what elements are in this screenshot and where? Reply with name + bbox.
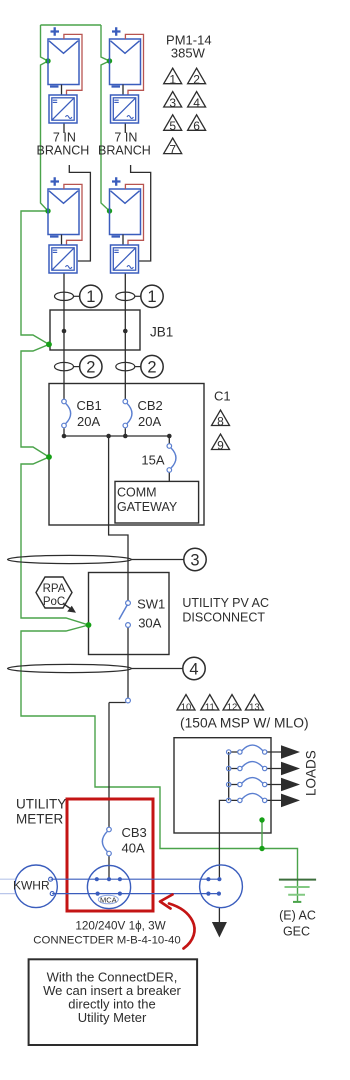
svg-text:BRANCH: BRANCH — [37, 144, 90, 158]
svg-text:4: 4 — [193, 96, 200, 110]
svg-text:JB1: JB1 — [150, 325, 173, 340]
svg-text:PoC: PoC — [43, 596, 65, 608]
svg-text:COMM: COMM — [117, 486, 157, 500]
svg-text:8: 8 — [217, 414, 224, 428]
svg-text:120/240V 1ϕ, 3W: 120/240V 1ϕ, 3W — [75, 920, 165, 933]
svg-text:7 IN: 7 IN — [53, 131, 76, 145]
svg-text:Utility Meter: Utility Meter — [78, 1010, 147, 1025]
svg-text:1: 1 — [86, 288, 95, 306]
svg-text:2: 2 — [193, 73, 200, 87]
svg-text:C1: C1 — [214, 389, 231, 404]
svg-text:5: 5 — [169, 119, 176, 133]
svg-text:11: 11 — [205, 702, 215, 713]
svg-text:1: 1 — [147, 288, 156, 306]
svg-text:2: 2 — [86, 359, 95, 377]
svg-text:KWHR: KWHR — [13, 879, 50, 893]
svg-text:UTILITY: UTILITY — [16, 797, 66, 812]
svg-text:(E) AC: (E) AC — [279, 909, 316, 923]
svg-text:CB2: CB2 — [138, 398, 163, 413]
svg-text:METER: METER — [16, 812, 64, 827]
svg-text:30A: 30A — [138, 616, 161, 631]
svg-text:1: 1 — [169, 73, 176, 87]
svg-text:(150A MSP W/ MLO): (150A MSP W/ MLO) — [180, 716, 309, 731]
svg-text:7 IN: 7 IN — [114, 131, 137, 145]
svg-text:385W: 385W — [171, 46, 206, 61]
svg-text:20A: 20A — [77, 414, 100, 429]
svg-text:3: 3 — [169, 96, 176, 110]
svg-text:DISCONNECT: DISCONNECT — [182, 611, 265, 625]
svg-text:CB3: CB3 — [122, 825, 147, 840]
svg-text:13: 13 — [249, 702, 260, 713]
svg-text:CB1: CB1 — [77, 398, 102, 413]
svg-text:SW1: SW1 — [137, 597, 165, 612]
svg-text:LOADS: LOADS — [304, 750, 319, 796]
svg-text:9: 9 — [217, 438, 224, 452]
svg-text:RPA: RPA — [43, 583, 66, 595]
svg-text:UTILITY PV AC: UTILITY PV AC — [182, 596, 269, 610]
svg-text:6: 6 — [193, 119, 200, 133]
svg-text:10: 10 — [181, 702, 192, 713]
svg-text:CONNECTDER M-B-4-10-40: CONNECTDER M-B-4-10-40 — [33, 935, 180, 947]
svg-text:12: 12 — [227, 702, 238, 713]
svg-text:3: 3 — [190, 551, 199, 569]
svg-text:BRANCH: BRANCH — [98, 144, 151, 158]
svg-text:2: 2 — [147, 359, 156, 377]
svg-text:15A: 15A — [141, 453, 164, 468]
svg-text:GATEWAY: GATEWAY — [117, 500, 178, 514]
svg-text:7: 7 — [169, 142, 176, 156]
svg-text:4: 4 — [189, 660, 198, 678]
svg-text:GEC: GEC — [283, 925, 310, 939]
svg-text:MCA: MCA — [100, 896, 117, 905]
svg-text:40A: 40A — [122, 841, 145, 856]
svg-text:20A: 20A — [138, 414, 161, 429]
